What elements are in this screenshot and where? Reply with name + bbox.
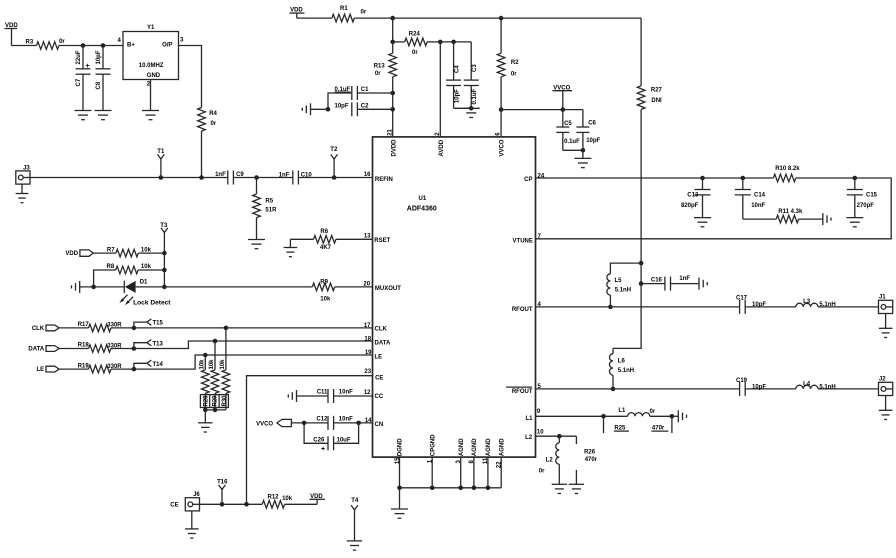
svg-text:22uF: 22uF [76, 50, 82, 64]
test point T15 [132, 326, 137, 331]
wire C5/C6 join [563, 149, 583, 151]
svg-text:0r: 0r [211, 121, 217, 127]
svg-text:C17: C17 [736, 295, 748, 301]
svg-text:DATA: DATA [375, 341, 391, 347]
ground under R26 [569, 483, 584, 485]
svg-text:17: 17 [364, 323, 371, 329]
capacitor C19 10pF [739, 382, 741, 396]
svg-text:R24: R24 [409, 32, 421, 38]
labels R28 R29 R30 [200, 395, 228, 408]
node L1 left [601, 414, 606, 419]
wire Y1 GND pin 2 [150, 80, 152, 111]
svg-text:R11 4.3k: R11 4.3k [778, 209, 803, 215]
svg-text:820pF: 820pF [681, 203, 699, 209]
wire J3 to C9 (REFIN net) [30, 177, 228, 179]
svg-text:L2: L2 [546, 458, 554, 464]
svg-text:0r: 0r [650, 409, 656, 415]
svg-text:10k: 10k [200, 359, 206, 370]
wire RFOUT pin 4 to C17 [536, 306, 740, 308]
svg-text:R17: R17 [78, 322, 90, 328]
svg-text:C2: C2 [361, 104, 369, 110]
svg-text:D1: D1 [140, 280, 148, 286]
wire R24 node to C4/C3 [440, 41, 471, 43]
svg-text:R30: R30 [222, 395, 228, 407]
svg-text:0r: 0r [511, 72, 517, 78]
node L2 [557, 434, 562, 439]
svg-text:T13: T13 [153, 341, 164, 347]
resistor R13 [392, 42, 394, 53]
node AVDD [438, 40, 443, 45]
ground under C5/C6 [582, 150, 584, 158]
svg-text:R4: R4 [209, 111, 217, 117]
test point T2 [332, 175, 337, 180]
node R4/REFIN [199, 175, 204, 180]
node C1/DVDD [390, 91, 395, 96]
wire C4/C3 ground join [454, 107, 472, 109]
svg-text:L3: L3 [803, 299, 811, 305]
ground under J1 [885, 314, 887, 329]
svg-text:C16: C16 [651, 277, 663, 283]
svg-text:10pF: 10pF [335, 104, 349, 110]
wire R13 to DVDD pin 21 [392, 93, 394, 137]
svg-text:21: 21 [387, 128, 393, 135]
inductor L2 0r [558, 436, 560, 443]
input flag DATA [46, 346, 59, 352]
ground left of C11 [296, 390, 298, 402]
wire Y1 O/P to R4 [179, 46, 202, 108]
svg-text:C15: C15 [866, 193, 878, 199]
svg-text:10k: 10k [320, 296, 331, 302]
node rail/DVDD branch [390, 16, 395, 21]
wire DATA to pin 18 [134, 341, 373, 349]
svg-text:R28: R28 [203, 395, 209, 407]
node R7/T3 [162, 251, 167, 256]
svg-text:L2: L2 [525, 435, 533, 441]
capacitor C13 820pF [702, 178, 704, 190]
svg-text:R12: R12 [268, 495, 280, 501]
svg-text:DVDD: DVDD [391, 139, 397, 157]
capacitor C1 0.1uF [351, 86, 353, 100]
svg-text:+: + [86, 63, 90, 70]
capacitor C6 10pF [582, 110, 584, 127]
svg-text:T3: T3 [160, 223, 168, 229]
svg-text:10k: 10k [282, 496, 293, 502]
svg-text:R10 8.2k: R10 8.2k [775, 166, 800, 172]
wire R4 to REFIN net [201, 131, 203, 177]
svg-text:10nF: 10nF [339, 417, 353, 423]
wire CPGND pin 1 drop [431, 457, 433, 488]
ground right of C16 [698, 278, 700, 290]
capacitor C5 0.1uF [562, 110, 564, 127]
wire L2 pin 10 [536, 435, 577, 437]
svg-text:330R: 330R [107, 364, 122, 370]
svg-text:10k: 10k [220, 359, 226, 370]
svg-text:10pF: 10pF [752, 385, 766, 391]
alternate resistor R26 470r [575, 436, 577, 444]
svg-text:Lock Detect: Lock Detect [133, 299, 171, 306]
ground under J3 [21, 184, 23, 193]
wire C10 to REFIN pin 16 [298, 177, 372, 179]
node at C8 [101, 43, 106, 48]
svg-text:R8: R8 [107, 264, 115, 270]
node LE/R28 [203, 353, 208, 358]
svg-text:C4: C4 [454, 65, 460, 73]
input flag CLK [46, 325, 59, 331]
svg-text:R9: R9 [320, 279, 328, 285]
node at C5 [561, 107, 566, 112]
svg-text:C6: C6 [588, 121, 596, 127]
capacitor C12 10nF [327, 416, 329, 430]
svg-text:R27: R27 [651, 88, 663, 94]
node C2/DVDD [390, 107, 395, 112]
svg-text:1nF: 1nF [679, 276, 690, 282]
svg-text:C26: C26 [313, 438, 325, 444]
svg-text:R7: R7 [107, 247, 115, 253]
svg-text:T14: T14 [153, 362, 164, 368]
svg-text:10nF: 10nF [751, 203, 765, 209]
resistor R30 10k pulldown [225, 328, 227, 370]
connector J2 [879, 382, 893, 395]
svg-text:330R: 330R [107, 323, 122, 329]
svg-text:C19: C19 [736, 378, 748, 384]
wire VDD to R3 [12, 45, 37, 47]
wire R27 down tank rail [613, 109, 641, 348]
svg-text:R18: R18 [78, 343, 90, 349]
ground under C15 [846, 217, 863, 219]
ground under T4 [347, 540, 362, 542]
svg-text:T16: T16 [217, 480, 228, 486]
svg-text:10pF: 10pF [96, 50, 102, 64]
resistor R1 [332, 14, 354, 22]
svg-text:AVDD: AVDD [439, 139, 445, 156]
connector J6 [185, 498, 199, 511]
svg-text:R3: R3 [26, 40, 34, 46]
resistor R11 4.3k [743, 218, 776, 220]
svg-text:L1: L1 [618, 408, 626, 414]
node D1/T3 [162, 285, 167, 290]
svg-text:LE: LE [375, 354, 383, 360]
node CP/C13 [700, 176, 705, 181]
svg-text:5.1nH: 5.1nH [819, 385, 835, 391]
inductor L4 5.1nH [796, 385, 818, 389]
node CLK/R30 [224, 326, 229, 331]
ground under C3/C4 [463, 107, 480, 109]
wire ground to D1 [80, 286, 125, 288]
svg-text:R26: R26 [584, 450, 596, 456]
resistor R29 10k pulldown [214, 341, 216, 370]
svg-text:0r: 0r [361, 10, 367, 16]
svg-text:10k: 10k [141, 264, 152, 270]
svg-text:C13: C13 [687, 193, 699, 199]
svg-text:5.1nH: 5.1nH [615, 288, 631, 294]
inductor L3 5.1nH [796, 303, 818, 307]
capacitor C4 10pF [453, 42, 455, 80]
capacitor C26 10uF polarized [304, 423, 328, 443]
ground under bus [399, 488, 401, 509]
svg-text:R29: R29 [213, 395, 219, 407]
svg-text:0r: 0r [412, 50, 418, 56]
capacitor C15 270pF [854, 178, 856, 190]
test point T16 [220, 502, 225, 507]
node CP/C14 [741, 176, 746, 181]
svg-text:CP: CP [524, 177, 532, 183]
svg-text:4K7: 4K7 [320, 245, 332, 251]
diode D1 lock detect LED [123, 281, 125, 293]
svg-text:CLK: CLK [32, 326, 45, 332]
resistor R6 4K7 [290, 238, 313, 240]
wire C1 down to C2 node [328, 93, 352, 109]
wire VVCO to C12 [291, 422, 328, 424]
wire LE to pin 19 [134, 355, 373, 369]
wire L1 to ground [672, 415, 678, 417]
svg-text:C5: C5 [564, 121, 572, 127]
svg-text:C1: C1 [361, 87, 369, 93]
wire ground bus [400, 487, 502, 489]
ground right of R11 [822, 213, 824, 225]
test point T14 [132, 367, 137, 372]
svg-text:L5: L5 [615, 278, 623, 284]
svg-text:C3: C3 [472, 64, 478, 72]
capacitor C3 0.1uF [470, 42, 472, 80]
capacitor C10 1nF [292, 171, 294, 185]
node tank/C16 [639, 281, 644, 286]
svg-text:C8: C8 [96, 81, 102, 89]
svg-text:J1: J1 [879, 294, 886, 300]
svg-text:+: + [321, 446, 325, 453]
node at C4 [451, 40, 456, 45]
svg-text:REFIN: REFIN [375, 177, 393, 183]
svg-text:CE: CE [170, 502, 178, 508]
svg-text:10.0MHZ: 10.0MHZ [139, 63, 164, 69]
svg-text:1nF: 1nF [279, 173, 290, 179]
wire AVDD pin 2 [439, 42, 441, 137]
ground left of C2 [310, 103, 312, 115]
svg-text:470r: 470r [585, 457, 598, 463]
node rail/R2 branch [499, 16, 504, 21]
svg-text:0r: 0r [539, 468, 545, 474]
svg-text:10k: 10k [141, 248, 152, 254]
svg-text:5.1nH: 5.1nH [618, 368, 634, 374]
svg-text:L6: L6 [618, 358, 626, 364]
node C12/C26 left [302, 421, 307, 426]
svg-text:RFOUT: RFOUT [512, 307, 533, 313]
capacitor C14 10nF [742, 178, 744, 190]
svg-text:10k: 10k [209, 359, 215, 370]
svg-text:CLK: CLK [375, 327, 388, 333]
capacitor C9 1nF [227, 171, 229, 185]
svg-text:270pF: 270pF [857, 203, 875, 209]
svg-text:J6: J6 [193, 492, 200, 498]
node L1 right [670, 414, 675, 419]
svg-text:VVCO: VVCO [500, 139, 506, 156]
svg-text:ADF4360: ADF4360 [407, 206, 437, 213]
node L5/RFOUT [608, 305, 613, 310]
svg-text:20: 20 [363, 281, 370, 287]
wire RFOUTB pin 5 to C19 [536, 388, 740, 390]
wire AGND pin 8 drop [473, 457, 475, 488]
capacitor C17 10pF [739, 300, 741, 314]
svg-text:C14: C14 [754, 193, 766, 199]
svg-text:R1: R1 [340, 6, 348, 12]
ground under Y1 [142, 110, 159, 112]
svg-text:T2: T2 [330, 147, 338, 153]
node R8/D1 [91, 285, 96, 290]
svg-text:AGND: AGND [472, 438, 478, 456]
wire C9 to C10 [233, 177, 292, 179]
capacitor C7 22uF polarized [82, 46, 84, 69]
wire C2 to ground [311, 108, 329, 110]
resistor R19 330R [59, 368, 88, 370]
resistor R8 10k [94, 270, 116, 287]
resistor R5 51R [256, 178, 258, 195]
inductor L1 0r [628, 413, 650, 417]
resistor R10 8.2k [773, 174, 795, 182]
svg-text:10: 10 [537, 430, 544, 436]
node at C7 [81, 43, 86, 48]
wire CP pin 24 to loop filter [536, 177, 774, 179]
node C15 [853, 176, 858, 181]
wire VVCO node to C5/C6 [501, 109, 583, 111]
svg-text:T4: T4 [351, 498, 359, 504]
ground right of L1 [677, 410, 679, 422]
wire D1 to R9 [164, 286, 312, 288]
ground left of R6 [289, 239, 291, 247]
svg-text:10nF: 10nF [339, 389, 353, 395]
node VVCO [499, 107, 504, 112]
resistor R9 10k [312, 283, 334, 291]
capacitor C8 10pF [102, 46, 104, 69]
node R8/T3 [162, 268, 167, 273]
connector J1 [879, 300, 893, 313]
svg-text:0.1uF: 0.1uF [564, 139, 580, 145]
svg-text:AGND: AGND [459, 438, 465, 456]
svg-text:RSET: RSET [374, 238, 390, 244]
capacitor C11 10nF [297, 395, 329, 397]
svg-text:19: 19 [365, 350, 372, 356]
power flag VDD at R7 [80, 250, 93, 256]
crystal oscillator Y1 10.0MHZ [123, 32, 179, 80]
svg-text:L1: L1 [525, 416, 533, 422]
wire L1 pin 9 [536, 415, 628, 417]
svg-text:14: 14 [365, 418, 372, 424]
svg-text:U1: U1 [419, 196, 427, 202]
svg-text:0r: 0r [59, 39, 65, 45]
svg-text:CN: CN [375, 422, 384, 428]
wire AGND pin 22 drop [500, 457, 502, 488]
svg-text:1nF: 1nF [215, 172, 226, 178]
svg-text:DNI: DNI [651, 98, 662, 104]
svg-text:RFOUT: RFOUT [512, 389, 533, 395]
svg-text:10uF: 10uF [337, 438, 351, 444]
svg-text:MUXOUT: MUXOUT [375, 286, 401, 292]
svg-text:16: 16 [364, 172, 371, 178]
svg-text:O/P: O/P [162, 43, 172, 49]
input flag LE [46, 366, 59, 372]
resistor R4 [198, 108, 206, 132]
wire rail down to R24 node [392, 18, 394, 42]
ground under C7 [75, 110, 92, 112]
IC U1 ADF4360 [373, 137, 536, 457]
svg-text:10pF: 10pF [454, 89, 460, 103]
svg-text:R19: R19 [78, 363, 90, 369]
svg-text:13: 13 [364, 234, 371, 240]
svg-text:CPGND: CPGND [430, 434, 436, 456]
resistor R18 330R [59, 348, 88, 350]
ground under C13 [694, 217, 711, 219]
inductor L6 5.1nH [612, 348, 614, 353]
resistor R27 DNI [637, 86, 645, 110]
svg-text:10pF: 10pF [586, 138, 600, 144]
connector J3 [16, 171, 30, 184]
svg-text:12: 12 [364, 390, 371, 396]
node R24/R13 [390, 40, 395, 45]
svg-text:T1: T1 [157, 149, 165, 155]
ground under J2 [885, 396, 887, 411]
resistor R3 [37, 42, 59, 50]
svg-text:18: 18 [364, 336, 371, 342]
svg-text:CE: CE [375, 375, 383, 381]
ground left of D1 [79, 281, 81, 293]
test point T1 [159, 175, 164, 180]
wire T3 down to D1 line [163, 253, 165, 287]
resistor R7 10k [93, 252, 116, 254]
svg-text:DATA: DATA [28, 347, 44, 353]
svg-text:5.1nH: 5.1nH [819, 302, 835, 308]
wire VVCO pin 6 [500, 110, 502, 137]
svg-text:AGND: AGND [486, 438, 492, 456]
ground under R5 [248, 239, 265, 241]
node tank/L5 [639, 261, 644, 266]
svg-text:AGND: AGND [499, 438, 505, 456]
svg-text:Y1: Y1 [147, 25, 155, 31]
svg-text:C12: C12 [316, 417, 328, 423]
svg-text:24: 24 [538, 174, 545, 180]
svg-text:R13: R13 [374, 63, 386, 69]
capacitor C2 10pF [351, 102, 353, 116]
svg-text:B+: B+ [127, 43, 135, 49]
svg-text:0r: 0r [375, 71, 381, 77]
svg-text:C7: C7 [76, 78, 82, 86]
svg-text:LE: LE [37, 367, 45, 373]
resistor R17 330R [59, 327, 88, 329]
alternate resistor R25 470r [603, 416, 605, 433]
wire loop filter to VTUNE pin 7 [536, 178, 892, 239]
node C12/C26 right [356, 421, 361, 426]
wire DGND pin 15 drop [399, 457, 401, 488]
wire AGND pin 3 drop [460, 457, 462, 488]
svg-text:51R: 51R [265, 208, 277, 214]
capacitor C16 1nF [641, 283, 665, 285]
svg-text:23: 23 [364, 369, 371, 375]
ground under L2 [552, 483, 567, 485]
svg-text:T15: T15 [153, 321, 164, 327]
resistor R24 [393, 41, 405, 43]
svg-text:VTUNE: VTUNE [513, 239, 533, 245]
svg-text:VVCO: VVCO [256, 421, 273, 427]
svg-text:GND: GND [147, 73, 161, 79]
test point T3 line [163, 233, 165, 254]
svg-text:0.1uF: 0.1uF [472, 88, 478, 104]
wire J6 to R12 [200, 503, 263, 505]
wire AGND pin 11 drop [487, 457, 489, 488]
svg-text:L4: L4 [803, 381, 811, 387]
svg-text:DGND: DGND [398, 438, 404, 456]
svg-text:C11: C11 [317, 389, 328, 395]
wire CLK to pin 17 [134, 327, 373, 329]
svg-text:330R: 330R [107, 343, 122, 349]
node CE/J6 [244, 502, 249, 507]
wire R3 to Y1 pin 4 [59, 45, 123, 47]
